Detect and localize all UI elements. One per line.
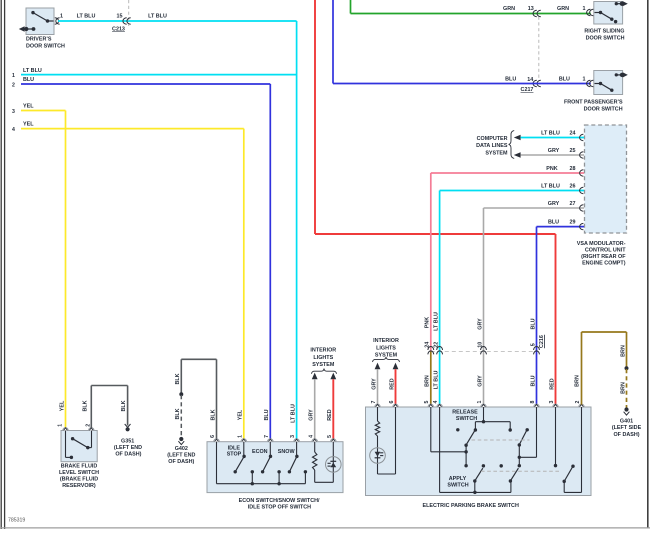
svg-text:DOOR SWITCH: DOOR SWITCH [584, 107, 623, 113]
svg-text:BLU: BLU [264, 409, 270, 420]
svg-text:(LEFT END: (LEFT END [114, 445, 142, 451]
svg-text:5: 5 [424, 400, 430, 403]
wire YEL label at econ pin 1 [238, 409, 244, 420]
svg-text:OF DASH): OF DASH) [613, 432, 639, 438]
econ box internal bus to pin 6 [217, 442, 306, 486]
svg-text:PNK: PNK [425, 317, 431, 328]
wire pin 4 to apply bus [440, 407, 511, 494]
driver's door switch label [26, 36, 65, 49]
svg-text:785319: 785319 [8, 518, 25, 524]
wire pin 8 to release blade right [518, 407, 537, 459]
apply switch label [447, 476, 468, 488]
ground G402 [178, 437, 184, 445]
svg-text:1: 1 [583, 77, 586, 83]
svg-text:DOOR SWITCH: DOOR SWITCH [26, 43, 65, 49]
econ switch label [239, 498, 320, 511]
release switch open contact right [525, 428, 528, 431]
wire 4 YEL [12, 121, 244, 440]
svg-text:6: 6 [210, 435, 216, 438]
svg-text:ECON SWITCH/SNOW SWITCH/: ECON SWITCH/SNOW SWITCH/ [239, 498, 320, 504]
wire RED to econ pin 5 [327, 379, 333, 439]
wire LT BLU vertical to node [296, 21, 298, 440]
front passenger's door switch [587, 71, 628, 95]
svg-text:29: 29 [570, 220, 576, 226]
svg-text:OF DASH): OF DASH) [115, 452, 141, 458]
svg-text:BRN: BRN [620, 382, 626, 394]
resistor in econ switch [313, 442, 317, 483]
svg-text:LT BLU: LT BLU [23, 68, 42, 74]
svg-text:RELEASE: RELEASE [452, 409, 478, 415]
front passenger's door switch label [564, 100, 623, 113]
svg-text:BLU: BLU [530, 318, 536, 329]
svg-text:GRY: GRY [477, 375, 483, 387]
wire BLK from brake fluid pin 2 to ground G351 [82, 386, 127, 428]
svg-text:1: 1 [237, 435, 243, 438]
snow contact [304, 470, 307, 484]
brake fluid level switch pin numbers [58, 424, 92, 427]
wire apply blade right to bus [510, 481, 512, 492]
connector C216 junction on gry wire [481, 347, 487, 355]
svg-text:G351: G351 [121, 438, 134, 444]
svg-text:RIGHT SLIDING: RIGHT SLIDING [584, 29, 624, 35]
svg-text:LT BLU: LT BLU [541, 130, 560, 136]
interior lights system label (econ switch) [310, 348, 336, 374]
svg-text:LT BLU: LT BLU [433, 312, 439, 331]
svg-text:BLK: BLK [175, 408, 181, 419]
wire BLU VSA pin 29 [537, 220, 585, 352]
indicator LED in econ switch [326, 442, 342, 483]
econ switch pin 4 [308, 435, 317, 442]
svg-text:BRN: BRN [425, 375, 431, 387]
svg-text:GRN: GRN [557, 6, 569, 12]
econ label [252, 449, 268, 455]
svg-text:10: 10 [477, 342, 483, 348]
svg-text:14: 14 [527, 77, 533, 83]
wire RED to parking brake pin 6 [389, 369, 395, 404]
electric parking brake switch label [423, 503, 519, 509]
idle stop switch [233, 442, 245, 474]
svg-text:BLK: BLK [121, 400, 127, 411]
apply switch blade left [473, 464, 485, 483]
econ switch pin 5 [327, 435, 336, 442]
parking brake switch pin 6 [389, 400, 398, 407]
wire release blade right to apply blade top [518, 445, 521, 467]
svg-text:4: 4 [12, 127, 15, 133]
svg-text:(RIGHT REAR OF: (RIGHT REAR OF [581, 254, 626, 260]
ground G351 [125, 424, 131, 431]
svg-text:GRY: GRY [309, 409, 315, 421]
VSA modulator-control unit label [577, 241, 626, 266]
svg-text:SYSTEM: SYSTEM [485, 150, 508, 156]
wire BLU to parking brake pin 8 [530, 352, 536, 405]
right sliding door switch label [584, 29, 624, 42]
svg-text:RED: RED [327, 409, 333, 420]
wire BLK from econ pin 6 [175, 359, 217, 439]
release switch open contact left [456, 428, 459, 431]
svg-text:OF DASH): OF DASH) [168, 459, 194, 465]
svg-text:RESERVOIR): RESERVOIR) [62, 483, 96, 489]
svg-text:22: 22 [433, 342, 439, 348]
svg-text:RED: RED [549, 378, 555, 389]
svg-text:INTERIOR: INTERIOR [310, 348, 336, 354]
wire pin 5 to release blade [431, 407, 468, 454]
svg-text:27: 27 [570, 201, 576, 207]
svg-text:DRIVER’S: DRIVER’S [26, 36, 52, 42]
svg-text:2: 2 [575, 400, 581, 403]
wire release blade to apply contact left [464, 445, 467, 467]
svg-text:ECON: ECON [252, 449, 268, 455]
svg-text:1: 1 [60, 14, 63, 20]
brake fluid level switch label [59, 464, 99, 489]
svg-text:LT BLU: LT BLU [290, 404, 296, 423]
svg-text:PNK: PNK [546, 166, 557, 172]
wire 2 BLU [12, 77, 270, 440]
wire RED from top to parking brake switch pin 3 [315, 0, 556, 405]
svg-text:COMPUTER: COMPUTER [477, 136, 508, 142]
svg-text:26: 26 [570, 183, 576, 189]
wire LT BLU label at econ pin 3 [290, 404, 296, 423]
idle stop contact [251, 470, 254, 484]
pin 1 connector of driver's door switch [55, 14, 63, 25]
svg-text:GRY: GRY [548, 201, 560, 207]
ground G402 label [167, 446, 195, 465]
econ contact [277, 470, 280, 484]
connector C216 junction on ltblu wire [437, 347, 443, 355]
wire BLK dashed to ground G402 [175, 395, 181, 437]
splice on BLK wire [179, 392, 183, 396]
parking brake switch pin 4 [433, 400, 442, 407]
ground G401 label [612, 419, 642, 438]
svg-text:3: 3 [549, 400, 555, 403]
svg-text:LIGHTS: LIGHTS [376, 345, 396, 351]
svg-text:C213: C213 [112, 26, 125, 32]
svg-text:2: 2 [12, 82, 15, 88]
wire 3 YEL [12, 103, 65, 428]
wire 1 LT BLU [12, 68, 297, 79]
svg-text:15: 15 [117, 14, 123, 20]
interior lights system label (parking brake) [373, 338, 400, 362]
label C216 [539, 335, 545, 348]
connector C217 [521, 10, 541, 93]
wire BRN from parking brake pin 2 [575, 332, 627, 405]
VSA modulator-control unit U1 [585, 125, 627, 233]
resistor in parking brake switch [375, 407, 379, 448]
svg-text:24: 24 [425, 342, 431, 348]
svg-text:LT BLU: LT BLU [541, 183, 560, 189]
svg-text:8: 8 [530, 400, 536, 403]
svg-text:1: 1 [583, 6, 586, 12]
wire RED label at parking brake pin 3 [549, 378, 555, 389]
wire LT BLU from driver's door switch [58, 14, 297, 21]
electric parking brake switch [366, 407, 592, 496]
parking brake switch pin 8 [530, 400, 539, 407]
svg-text:5: 5 [530, 343, 536, 346]
svg-text:ELECTRIC PARKING BRAKE SWITCH: ELECTRIC PARKING BRAKE SWITCH [423, 503, 519, 509]
parking switch right blade [562, 464, 574, 483]
svg-text:BLU: BLU [530, 375, 536, 386]
wire pin 3 contact [554, 407, 557, 467]
svg-text:FRONT PASSENGER’S: FRONT PASSENGER’S [564, 100, 623, 106]
apply switch open contact middle [499, 464, 502, 467]
brake fluid level switch [61, 428, 97, 462]
wire from LED to pin 6 inside parking brake switch [378, 407, 396, 474]
svg-text:GRY: GRY [548, 148, 560, 154]
wire BRN to parking brake pin 5 [425, 352, 431, 405]
svg-text:4: 4 [308, 435, 314, 438]
svg-text:1: 1 [12, 73, 15, 79]
svg-text:STOP: STOP [227, 451, 242, 457]
apply switch blade right [509, 468, 519, 483]
wire GRN to right sliding door switch [351, 0, 591, 14]
svg-text:GRY: GRY [371, 378, 377, 390]
econ switch pin 1 [237, 435, 246, 442]
econ switch pin 7 [264, 435, 273, 442]
econ switch/snow switch/idle stop off switch [207, 442, 343, 493]
svg-text:YEL: YEL [59, 400, 65, 411]
svg-text:(LEFT END: (LEFT END [167, 453, 195, 459]
svg-text:SYSTEM: SYSTEM [312, 362, 335, 368]
release switch blade left [464, 431, 474, 447]
svg-text:YEL: YEL [23, 103, 34, 109]
svg-text:BLU: BLU [548, 220, 559, 226]
wire GRY VSA pin 25 [521, 148, 584, 158]
svg-text:SWITCH: SWITCH [456, 416, 477, 422]
svg-text:3: 3 [12, 109, 15, 115]
svg-text:LT BLU: LT BLU [433, 371, 439, 390]
parking brake switch pin 3 [549, 400, 558, 407]
arrow interior lights GRY (econ) [312, 373, 318, 380]
svg-text:BLU: BLU [559, 76, 570, 82]
wire YEL label at brake fluid pin 1 [59, 400, 65, 411]
arrow interior lights (GRY) [375, 363, 381, 370]
svg-text:LT BLU: LT BLU [148, 14, 167, 20]
ground G351 label [114, 438, 142, 457]
svg-text:CONTROL UNIT: CONTROL UNIT [585, 248, 626, 254]
svg-text:GRN: GRN [503, 6, 515, 12]
svg-text:24: 24 [570, 130, 576, 136]
wire LT BLU VSA pin 24 [521, 130, 584, 140]
svg-text:25: 25 [570, 148, 576, 154]
svg-text:APPLY: APPLY [449, 476, 467, 482]
wire GRY to parking brake pin 1 [477, 352, 483, 405]
parking brake switch pin 2 [575, 400, 584, 407]
svg-text:5: 5 [327, 435, 333, 438]
snow switch [288, 442, 299, 474]
svg-text:SNOW: SNOW [278, 449, 296, 455]
svg-text:28: 28 [570, 166, 576, 172]
wire GRY VSA pin 27 [484, 201, 585, 352]
wire LT BLU to parking brake pin 4 [433, 352, 439, 405]
release switch blade right [518, 430, 527, 446]
connector C216 dashed line [431, 351, 537, 353]
svg-text:LEVEL SWITCH: LEVEL SWITCH [59, 470, 99, 476]
snow label [278, 449, 296, 455]
svg-text:(LEFT SIDE: (LEFT SIDE [612, 425, 642, 431]
release switch feed from pin 1 [474, 407, 512, 432]
idle stop switch label [227, 445, 242, 457]
wire right blade to pin 2 [564, 407, 581, 492]
svg-text:4: 4 [433, 400, 439, 403]
svg-text:BLU: BLU [23, 77, 34, 83]
connector C216 junction on pnk-brn wire [428, 347, 434, 355]
svg-text:6: 6 [389, 400, 395, 403]
wire LT BLU VSA pin 26 [440, 183, 584, 351]
svg-text:RED: RED [389, 378, 395, 389]
svg-text:BLK: BLK [210, 409, 216, 420]
parking brake switch pin 1 [477, 400, 486, 407]
wire GRY to parking brake pin 7 [371, 369, 377, 404]
svg-text:G401: G401 [620, 419, 633, 425]
arrow interior lights RED (econ) [330, 373, 336, 380]
econ switch pin 6 [210, 435, 219, 442]
parking brake switch pin 5 [424, 400, 433, 407]
econ switch [261, 442, 272, 474]
wire labels above connector C216 [425, 312, 537, 348]
wire PNK VSA pin 28 [431, 166, 584, 352]
svg-text:BLK: BLK [82, 400, 88, 411]
svg-text:7: 7 [371, 400, 377, 403]
svg-text:INTERIOR: INTERIOR [373, 338, 399, 344]
svg-text:BLK: BLK [175, 373, 181, 384]
svg-text:GRY: GRY [477, 318, 483, 330]
splice on BRN wire [625, 366, 629, 370]
connector C213 [112, 0, 131, 32]
svg-text:VSA MODULATOR-: VSA MODULATOR- [577, 241, 626, 247]
connector C216 junction on blu wire [534, 346, 540, 354]
right sliding door switch [587, 1, 628, 24]
wire resistor to LED in econ switch [315, 481, 334, 483]
arrow to computer data lines (pin 25) [514, 152, 521, 158]
svg-text:BRN: BRN [620, 345, 626, 357]
driver's door switch [19, 8, 54, 35]
svg-text:BRAKE FLUID: BRAKE FLUID [61, 464, 98, 470]
release switch label [452, 409, 478, 421]
svg-text:3: 3 [290, 435, 296, 438]
svg-text:G402: G402 [175, 446, 188, 452]
arrow to computer data lines (pin 24) [514, 135, 521, 141]
wire BRN dashed to ground G401 [620, 369, 626, 408]
svg-text:IDLE STOP OFF SWITCH: IDLE STOP OFF SWITCH [248, 505, 311, 511]
svg-text:1: 1 [58, 424, 64, 427]
svg-text:DOOR SWITCH: DOOR SWITCH [586, 36, 625, 42]
svg-text:C217: C217 [521, 87, 534, 93]
svg-text:ENGINE COMPT): ENGINE COMPT) [582, 260, 626, 266]
wire apply blade left to bus [474, 481, 476, 492]
svg-text:(BRAKE FLUID: (BRAKE FLUID [60, 476, 98, 482]
econ switch pin 3 [290, 435, 299, 442]
svg-text:SWITCH: SWITCH [447, 482, 468, 488]
ground G401 [624, 407, 630, 415]
svg-text:7: 7 [264, 435, 270, 438]
svg-text:BLU: BLU [505, 76, 516, 82]
svg-text:LIGHTS: LIGHTS [313, 355, 333, 361]
indicator LED in parking brake switch [370, 448, 386, 474]
parking brake switch pin 7 [371, 400, 380, 407]
release switch linkage dashed [472, 439, 530, 441]
svg-text:YEL: YEL [23, 121, 34, 127]
svg-text:13: 13 [528, 6, 534, 12]
apply switch linkage dashed [481, 470, 562, 472]
svg-text:BRN: BRN [575, 375, 581, 387]
wire GRY to econ pin 4 [309, 379, 315, 439]
svg-text:LT BLU: LT BLU [77, 14, 96, 20]
svg-text:DATA LINES: DATA LINES [476, 143, 508, 149]
wire BLU to front passenger's door switch [333, 0, 591, 84]
svg-text:YEL: YEL [238, 409, 244, 420]
computer data lines system label [476, 131, 514, 159]
svg-text:1: 1 [477, 400, 483, 403]
wire BLU label at econ pin 7 [264, 409, 270, 420]
arrow interior lights (RED) [393, 363, 399, 370]
